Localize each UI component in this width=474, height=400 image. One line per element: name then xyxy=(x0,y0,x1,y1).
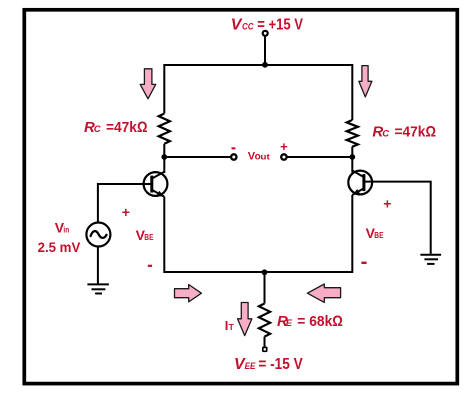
terminal: Vout minus xyxy=(231,154,236,159)
junction: bottom rail / RE xyxy=(262,269,268,275)
wire: RE to VEE terminal xyxy=(264,337,266,347)
svg-text:+: + xyxy=(383,195,391,211)
current arrow: left emitter current (rightward) xyxy=(175,285,202,302)
junction: right collector node xyxy=(349,154,355,160)
resistor RC2 (right) xyxy=(347,120,358,147)
svg-text:in: in xyxy=(63,225,69,234)
label VEE = -15 V xyxy=(234,356,303,373)
svg-text:= -15 V: = -15 V xyxy=(258,356,303,373)
svg-text:ut: ut xyxy=(260,153,270,162)
resistor RE xyxy=(259,304,270,337)
ground (right, Q2 base) xyxy=(420,255,441,264)
label VBE (right) xyxy=(366,225,384,241)
source Vin (sine source) xyxy=(86,223,110,247)
wire: Q1 emitter down to bottom rail xyxy=(163,197,165,271)
current arrow: right collector current xyxy=(359,66,372,97)
label minus (left VBE) xyxy=(148,265,152,267)
current arrow: left collector current xyxy=(140,69,156,99)
label Vin xyxy=(55,219,70,235)
current arrow: right emitter current (leftward) xyxy=(307,284,340,302)
label VCC = +15 V xyxy=(231,17,304,34)
transistor Q2 (right) xyxy=(348,170,372,195)
svg-text:=47kΩ: =47kΩ xyxy=(395,124,437,141)
svg-text:BE: BE xyxy=(374,230,383,240)
current arrow: IT tail current (down) xyxy=(238,303,252,336)
svg-text:=47kΩ: =47kΩ xyxy=(106,119,148,136)
power terminal VEE xyxy=(263,347,267,351)
label RC =47kΩ (left) xyxy=(84,119,148,136)
terminal: Vout plus xyxy=(281,154,286,159)
wire: Q1 base to Vin xyxy=(98,184,152,222)
svg-text:EE: EE xyxy=(245,361,256,372)
wire: Vin to left ground xyxy=(97,247,99,284)
wire: Q2 base to right ground xyxy=(364,182,431,254)
svg-text:E: E xyxy=(286,318,293,329)
wire: VCC terminal to top rail xyxy=(264,37,266,65)
resistor RC1 (left) xyxy=(159,114,170,144)
svg-text:C: C xyxy=(382,129,389,140)
svg-text:C: C xyxy=(94,124,101,135)
wire: bottom rail xyxy=(163,271,353,273)
svg-text:CC: CC xyxy=(242,22,254,33)
wire: RC1 bottom to collector node xyxy=(163,144,165,173)
svg-text:+: + xyxy=(122,204,130,220)
wire: left collector node to Vout minus terminal xyxy=(164,156,230,158)
svg-text:+: + xyxy=(280,139,288,154)
label IT xyxy=(225,318,235,333)
svg-text:2.5 mV: 2.5 mV xyxy=(38,239,81,255)
label minus above Vout left terminal xyxy=(232,147,236,149)
wire: Q2 emitter down to bottom rail xyxy=(351,195,353,271)
svg-text:BE: BE xyxy=(144,232,153,242)
wire: RC2 bottom to right collector xyxy=(351,147,353,173)
junction: left collector node xyxy=(161,154,167,160)
power terminal VCC xyxy=(263,31,268,36)
svg-text:V: V xyxy=(231,17,243,34)
svg-text:= 68kΩ: = 68kΩ xyxy=(297,313,343,330)
ground (left, below Vin) xyxy=(87,284,109,293)
wire: Vout plus terminal to right collector node xyxy=(287,156,352,158)
label VBE (left) xyxy=(136,227,154,243)
transistor Q1 (left) xyxy=(144,172,168,197)
wire: top rail xyxy=(164,65,352,120)
svg-text:T: T xyxy=(229,322,235,332)
wire: bottom rail to RE xyxy=(264,272,266,304)
junction: VCC wire / top rail xyxy=(262,62,268,68)
label Vout xyxy=(248,151,271,163)
label RC =47kΩ (right) xyxy=(372,124,436,141)
label RE = 68kΩ xyxy=(277,313,343,330)
label minus (right VBE) xyxy=(361,262,366,264)
